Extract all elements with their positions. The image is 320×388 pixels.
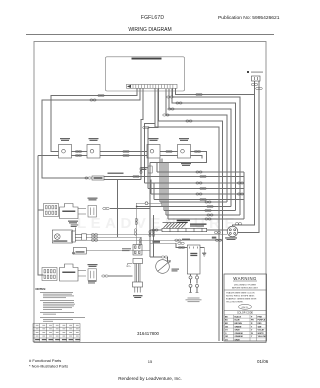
svg-text:* Non-Illustrated Parts: * Non-Illustrated Parts [29, 364, 68, 369]
svg-text:GRAY: GRAY [235, 329, 241, 332]
svg-text:BLACK: BLACK [235, 315, 242, 318]
svg-text:GRAY: GRAY [235, 339, 241, 342]
svg-text:GN-YL: GN-YL [242, 307, 249, 309]
svg-text:NOTES:: NOTES: [36, 287, 47, 291]
svg-text:ORANGE: ORANGE [235, 335, 244, 338]
svg-text:EXAMPLE: GREEN WIRE WITH: EXAMPLE: GREEN WIRE WITH [226, 298, 257, 301]
svg-text:COLOR CODE: COLOR CODE [237, 312, 253, 315]
svg-text:WHITE: WHITE [258, 333, 265, 335]
svg-text:W: W [251, 333, 253, 335]
svg-text:YELLOW: YELLOW [258, 336, 266, 338]
svg-text:Publication No: 5995426621: Publication No: 5995426621 [218, 15, 280, 21]
svg-text:TRACER WIRE WIRE COLOR: TRACER WIRE WIRE COLOR [226, 292, 255, 295]
svg-text:15: 15 [148, 359, 153, 364]
svg-text:316417800: 316417800 [137, 331, 160, 336]
svg-text:PINK: PINK [258, 316, 263, 318]
svg-text:PURPLE: PURPLE [258, 320, 266, 322]
svg-text:YELLOW STRIPE.: YELLOW STRIPE. [226, 302, 244, 304]
svg-text:01/06: 01/06 [257, 359, 269, 364]
svg-text:WIRING DIAGRAM: WIRING DIAGRAM [128, 27, 171, 33]
svg-text:RED: RED [258, 323, 263, 325]
svg-text:BLUE: BLUE [235, 320, 241, 322]
svg-text:ORANGE: ORANGE [235, 332, 244, 335]
svg-text:BEFORE SERVICING UNIT: BEFORE SERVICING UNIT [232, 287, 259, 289]
svg-text:NOTED FIRST, STRIPE NEXT.: NOTED FIRST, STRIPE NEXT. [226, 296, 255, 298]
svg-text:Rendered by LeadVenture, Inc.: Rendered by LeadVenture, Inc. [118, 376, 182, 381]
svg-text:VIOLET: VIOLET [258, 330, 266, 332]
svg-text:TAN: TAN [258, 325, 262, 328]
svg-text:BROWN: BROWN [235, 323, 243, 325]
svg-text:GREEN: GREEN [235, 326, 242, 328]
svg-text:# Functional Parts: # Functional Parts [29, 358, 61, 363]
svg-text:WARNING: WARNING [233, 276, 257, 281]
svg-text:DISCONNECT POWER: DISCONNECT POWER [234, 285, 257, 287]
svg-text:FGFL67D: FGFL67D [141, 15, 165, 21]
